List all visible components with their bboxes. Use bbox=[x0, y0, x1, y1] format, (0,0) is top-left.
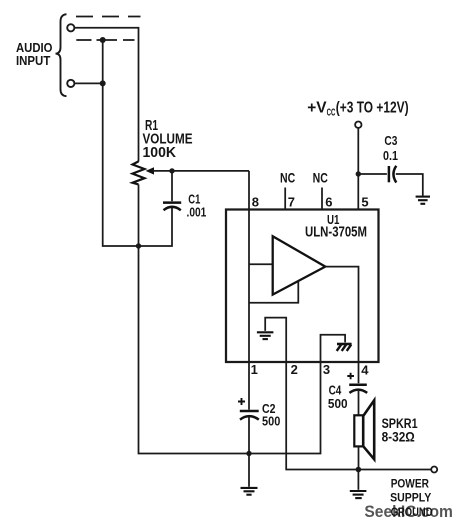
svg-text:NC: NC bbox=[280, 171, 295, 186]
wire junction to ground bbox=[357, 470, 359, 490]
svg-text:500: 500 bbox=[328, 396, 348, 411]
svg-text:8-32Ω: 8-32Ω bbox=[382, 430, 415, 445]
label +Vcc (+3 TO +12V) bbox=[307, 100, 408, 119]
plus sign C2 bbox=[238, 398, 245, 405]
wire feedback from triangle bottom bbox=[249, 282, 298, 303]
junction speaker output bbox=[356, 467, 362, 473]
capacitor C2 bbox=[240, 411, 259, 454]
ground bus wire from R1 junction to pin 3 bbox=[139, 246, 321, 454]
label C2 500 bbox=[262, 401, 280, 429]
svg-text:0.1: 0.1 bbox=[383, 148, 398, 163]
junction wiper C1 bbox=[169, 168, 174, 173]
svg-text:5: 5 bbox=[361, 194, 368, 209]
svg-text:7: 7 bbox=[288, 194, 295, 209]
ground at C3 bbox=[416, 197, 430, 204]
terminal power supply bbox=[431, 467, 437, 473]
terminal Vcc bbox=[355, 122, 361, 128]
junction C2 ground bus bbox=[246, 451, 251, 456]
IC U1 box bbox=[226, 210, 379, 363]
svg-text:100K: 100K bbox=[143, 145, 177, 161]
wire NC stub pin 7 bbox=[284, 188, 286, 210]
junction Vcc C3 bbox=[356, 171, 361, 176]
wire pin 3 to chassis ground bbox=[321, 335, 346, 362]
shield dashed line bottom bbox=[76, 39, 134, 41]
wire ground feed down to bus and C1 bottom bbox=[103, 40, 172, 246]
svg-text:INPUT: INPUT bbox=[16, 53, 50, 68]
label POWER SUPPLY GROUND bbox=[390, 477, 433, 519]
svg-text:+V: +V bbox=[307, 100, 327, 117]
op-amp U1 triangle bbox=[273, 236, 326, 294]
svg-text:500: 500 bbox=[262, 414, 280, 429]
terminal J1 audio input top bbox=[67, 24, 74, 31]
wire pin 8 down through IC to pin 1 bbox=[248, 171, 250, 362]
label C1 .001 bbox=[187, 192, 207, 220]
wire NC stub pin 6 bbox=[321, 188, 323, 210]
wire speaker to junction bbox=[358, 446, 360, 469]
capacitor C3 bbox=[358, 166, 423, 196]
svg-text:8: 8 bbox=[252, 194, 259, 209]
label AUDIO INPUT bbox=[16, 40, 53, 68]
svg-text:1: 1 bbox=[251, 362, 258, 377]
label C4 500 bbox=[328, 383, 348, 412]
svg-text:.001: .001 bbox=[187, 205, 207, 220]
label U1 ULN-3705M bbox=[305, 212, 367, 241]
wire R1 bottom to ground bus junction bbox=[138, 184, 140, 246]
label R1 VOLUME 100K bbox=[143, 118, 193, 161]
wire C2 junction to ground bbox=[248, 454, 250, 487]
svg-text:SeekIC.com: SeekIC.com bbox=[364, 503, 453, 521]
label C3 0.1 bbox=[383, 133, 398, 163]
wiper arrow of R1 bbox=[146, 167, 154, 174]
capacitor C1 bbox=[163, 171, 181, 210]
ground at C2 bbox=[241, 488, 258, 495]
capacitor C4 bbox=[349, 385, 367, 416]
chassis ground at pin 3 bbox=[337, 344, 352, 351]
wire output to pin 4 bbox=[325, 267, 358, 362]
speaker SPKR1 bbox=[354, 400, 374, 459]
wire wiper to pin 8 bbox=[153, 170, 250, 172]
plus sign C4 bbox=[347, 373, 354, 380]
wire junction to power terminal bbox=[358, 469, 431, 471]
label SPKR1 8-32ohm bbox=[382, 416, 418, 444]
svg-text:C3: C3 bbox=[384, 133, 397, 148]
wire pin 1 to C2 bbox=[248, 362, 250, 410]
wire audio bottom to shield node bbox=[75, 82, 103, 84]
svg-text:(+3 TO +12V): (+3 TO +12V) bbox=[336, 100, 409, 117]
wire pin 2 to internal ground bbox=[265, 318, 286, 362]
svg-text:4: 4 bbox=[361, 362, 369, 377]
terminal J2 audio input bottom bbox=[67, 80, 74, 87]
svg-text:CC: CC bbox=[327, 107, 336, 119]
wire audio top to R1 bbox=[75, 28, 139, 162]
resistor R1 potentiometer bbox=[133, 161, 145, 184]
svg-text:6: 6 bbox=[325, 194, 332, 209]
junction shield node bbox=[100, 37, 106, 43]
brace for audio input bbox=[56, 14, 67, 96]
ground power supply bbox=[350, 491, 367, 498]
wire Vcc to pin 5 bbox=[357, 128, 359, 210]
wire pin 2 to speaker junction bbox=[286, 362, 358, 470]
wire input tap to triangle bbox=[249, 263, 273, 265]
svg-text:3: 3 bbox=[323, 362, 330, 377]
svg-text:ULN-3705M: ULN-3705M bbox=[305, 224, 367, 241]
ground internal bbox=[257, 332, 274, 339]
wire pin 4 to C4 bbox=[358, 362, 360, 383]
svg-text:POWER: POWER bbox=[391, 477, 429, 491]
svg-text:2: 2 bbox=[291, 362, 298, 377]
junction R1 bottom on ground line bbox=[136, 243, 141, 248]
shield dashed line top bbox=[76, 16, 141, 18]
junction audio bottom bbox=[100, 80, 106, 86]
svg-text:NC: NC bbox=[313, 171, 328, 186]
